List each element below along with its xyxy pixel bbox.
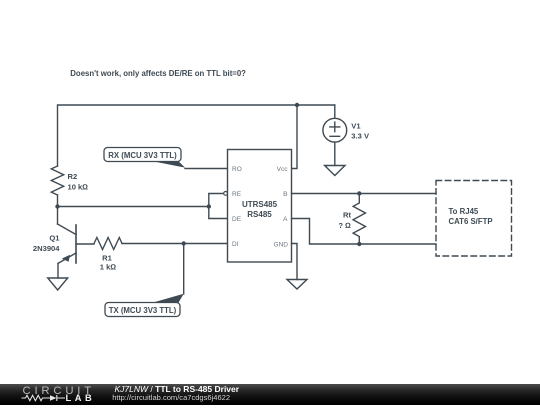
svg-text:GND: GND <box>274 242 289 249</box>
wire GND pin <box>292 244 298 280</box>
svg-text:To RJ45: To RJ45 <box>449 207 479 216</box>
svg-text:UTRS485: UTRS485 <box>242 200 278 209</box>
wire collector <box>57 207 59 225</box>
svg-text:Rt: Rt <box>343 211 351 220</box>
svg-text:CAT6 S/FTP: CAT6 S/FTP <box>449 217 493 226</box>
svg-text:? Ω: ? Ω <box>338 221 351 230</box>
svg-text:RE: RE <box>232 191 242 198</box>
logo squiggle resistor+diode <box>22 395 66 401</box>
svg-text:TX (MCU 3V3 TTL): TX (MCU 3V3 TTL) <box>109 306 177 315</box>
junction RE/DE node <box>207 204 211 208</box>
wire A <box>292 219 437 245</box>
callout RX box <box>104 148 181 162</box>
junction base node <box>55 204 59 208</box>
callout TX pointer <box>151 294 183 303</box>
svg-text:R2: R2 <box>68 172 78 181</box>
svg-text:Doesn't work, only affects DE/: Doesn't work, only affects DE/RE on TTL … <box>70 69 246 78</box>
junction B/Rt <box>357 191 361 195</box>
resistor R1 <box>94 238 122 250</box>
resistor Rt <box>353 194 365 245</box>
svg-text:DE: DE <box>232 216 242 223</box>
wire TX drop <box>183 244 185 295</box>
voltage source V1 <box>323 105 347 166</box>
junction A/Rt <box>357 242 361 246</box>
RE inversion bubble <box>224 192 228 196</box>
dashed box RJ45 <box>436 181 512 257</box>
ground V1 <box>325 166 345 176</box>
svg-text:RS485: RS485 <box>247 210 272 219</box>
wire base node to RE/DE <box>58 206 209 208</box>
wire B <box>292 193 437 195</box>
IC U1 UTRS485 <box>228 150 292 263</box>
ground Q1 <box>48 278 68 290</box>
transistor Q1 <box>58 224 95 278</box>
ground IC <box>287 280 307 290</box>
wire top rail <box>58 105 335 166</box>
junction Vcc rail <box>295 103 299 107</box>
svg-text:10 kΩ: 10 kΩ <box>68 182 89 191</box>
svg-text:http://circuitlab.com/ca7cdgs6: http://circuitlab.com/ca7cdgs6j4622 <box>112 393 230 402</box>
svg-text:LAB: LAB <box>66 393 96 403</box>
callout TX box <box>105 303 180 317</box>
svg-text:RO: RO <box>232 166 242 173</box>
svg-text:B: B <box>283 191 287 198</box>
wire RE/DE <box>209 194 228 219</box>
svg-text:1 kΩ: 1 kΩ <box>100 262 117 271</box>
wire R1 to DI <box>122 243 228 245</box>
svg-text:V1: V1 <box>351 121 361 130</box>
svg-text:Q1: Q1 <box>49 234 60 243</box>
svg-text:Vcc: Vcc <box>277 166 289 173</box>
wire R2 bottom <box>57 195 59 207</box>
svg-text:RX (MCU 3V3 TTL): RX (MCU 3V3 TTL) <box>108 151 177 160</box>
wire RO <box>185 168 228 170</box>
svg-text:3.3 V: 3.3 V <box>351 132 370 141</box>
svg-text:R1: R1 <box>102 253 112 262</box>
resistor R2 <box>51 166 63 195</box>
svg-text:DI: DI <box>232 241 239 248</box>
svg-text:2N3904: 2N3904 <box>33 244 60 253</box>
callout RX pointer <box>151 161 185 168</box>
junction TX tap <box>182 241 186 245</box>
svg-text:A: A <box>283 216 288 223</box>
wire Vcc drop <box>292 105 298 169</box>
footer bar <box>0 384 540 405</box>
IC pin labels <box>232 166 288 249</box>
